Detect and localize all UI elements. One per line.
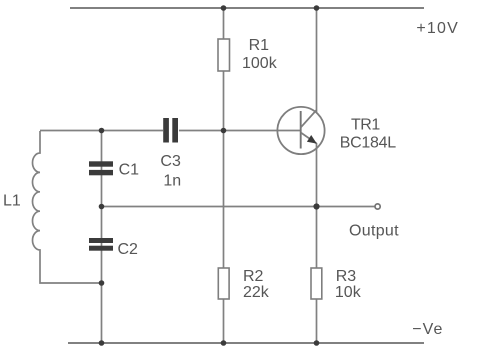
capacitor C3 plates xyxy=(163,118,178,143)
wire emitter branch vertical xyxy=(316,143,318,343)
transistor TR1 emitter arrowhead xyxy=(307,135,317,144)
junction dot mid node left xyxy=(99,204,105,210)
svg-text:L1: L1 xyxy=(3,192,21,209)
junction dot bottom rail R2 xyxy=(221,340,227,346)
transistor TR1 circle xyxy=(277,107,324,154)
svg-text:+10V: +10V xyxy=(416,20,459,37)
svg-text:C1: C1 xyxy=(119,161,140,178)
junction dot base node left xyxy=(99,128,105,134)
output terminal open circle xyxy=(375,204,380,209)
resistor R2 xyxy=(218,268,229,299)
capacitor C1 plates xyxy=(89,161,113,175)
junction dot bottom rail C branch xyxy=(99,340,105,346)
wire mid node to output xyxy=(102,206,375,208)
junction dot mid node emitter xyxy=(313,203,319,209)
svg-text:R1: R1 xyxy=(249,37,270,54)
junction dot L1 bottom xyxy=(99,280,105,286)
svg-text:10k: 10k xyxy=(335,284,362,301)
resistor R3 xyxy=(311,268,322,299)
wire base node horizontal right segment xyxy=(179,130,301,132)
wire base node horizontal left segment xyxy=(40,130,163,132)
svg-text:R2: R2 xyxy=(243,268,264,285)
svg-text:−Ve: −Ve xyxy=(412,321,443,338)
capacitor C2 plates xyxy=(89,238,113,251)
svg-text:R3: R3 xyxy=(336,268,357,285)
wire top rail +10V xyxy=(70,7,424,9)
svg-text:C2: C2 xyxy=(118,241,139,258)
svg-text:C3: C3 xyxy=(160,153,181,170)
junction dot bottom rail R3 xyxy=(314,340,320,346)
svg-text:Output: Output xyxy=(349,222,399,239)
wire bottom rail -Ve xyxy=(68,342,424,344)
svg-text:TR1: TR1 xyxy=(351,117,380,134)
junction dot base node R1 xyxy=(221,128,227,134)
wire collector branch vertical xyxy=(316,8,318,113)
wire R1/R2 branch vertical xyxy=(223,8,225,343)
transistor TR1 collector stroke xyxy=(301,110,317,128)
wire capacitor branch vertical xyxy=(101,131,103,344)
transistor TR1 base bar xyxy=(300,111,302,149)
junction dot top rail R1 xyxy=(221,5,227,11)
junction dot top rail collector xyxy=(314,5,320,11)
svg-text:100k: 100k xyxy=(242,55,278,72)
svg-text:BC184L: BC184L xyxy=(340,135,396,152)
svg-text:1n: 1n xyxy=(163,173,181,190)
inductor L1 xyxy=(32,131,101,283)
resistor R1 xyxy=(218,39,230,71)
transistor TR1 emitter stroke xyxy=(301,133,317,144)
svg-text:22k: 22k xyxy=(243,284,270,301)
